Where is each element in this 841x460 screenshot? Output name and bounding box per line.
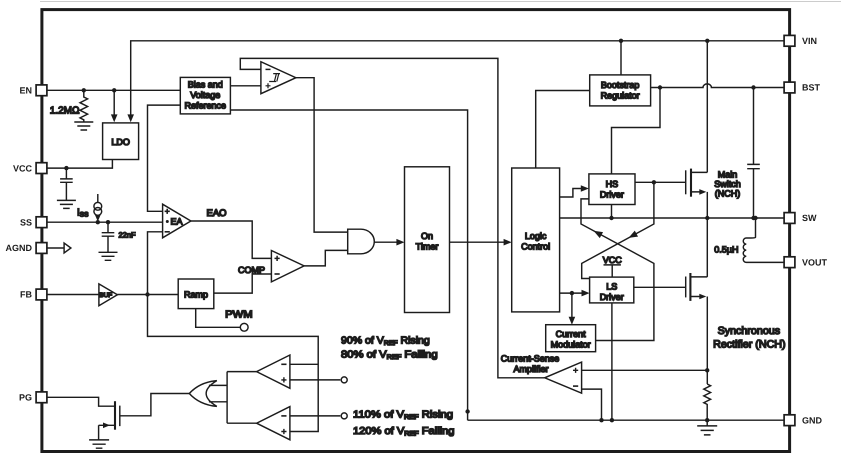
pin VOUT: [784, 257, 795, 268]
cross-couple line from current modulator to HS driver: [581, 199, 654, 341]
AND gate U6: [348, 229, 375, 254]
svg-text:Logic: Logic: [525, 231, 547, 241]
wire bottom PG comparator output: [227, 422, 257, 424]
wire GND rail: [468, 419, 784, 421]
pin PG: [36, 392, 47, 403]
svg-text:Main: Main: [718, 170, 738, 180]
pin VIN: [784, 35, 795, 46]
wire SW net: [560, 217, 784, 219]
node BST cap junction: [751, 85, 755, 89]
pin FB: [36, 289, 47, 300]
svg-text:Amplifier: Amplifier: [513, 364, 548, 374]
svg-text:Driver: Driver: [600, 189, 624, 199]
arrow into LDO from VIN: [127, 114, 134, 122]
node bootstrap cap at SW: [751, 216, 755, 220]
arrow into LDO from EN: [111, 114, 118, 122]
wire Q3 gate to OR gate: [120, 394, 190, 416]
wire AND out to On Timer: [374, 241, 398, 243]
svg-text:SS: SS: [20, 217, 32, 227]
wire Bias to EA plus: [148, 105, 181, 211]
svg-text:EA: EA: [171, 217, 183, 227]
pin SS: [36, 217, 47, 228]
svg-text:22nF: 22nF: [119, 231, 137, 240]
svg-text:120% of VREF Falling: 120% of VREF Falling: [353, 426, 455, 438]
svg-text:PWM: PWM: [225, 310, 253, 321]
wire BUF out to Ramp: [117, 294, 178, 296]
node terminal circle high: [341, 377, 347, 383]
node sense resistor at GND rail: [705, 418, 709, 422]
HS Driver box: [589, 174, 635, 205]
ground at GND rail: [697, 420, 717, 435]
node PWM terminal: [240, 323, 248, 331]
op-amp U5 PWM comparator: [271, 251, 304, 282]
wire rectifier source down: [706, 297, 708, 385]
node VCC cap junction: [64, 166, 68, 170]
ground below R1: [74, 122, 93, 130]
node SS junction 1: [96, 220, 100, 224]
svg-text:Bias and: Bias and: [188, 80, 223, 90]
wire LDO to VCC: [47, 160, 112, 169]
node FB junction: [145, 292, 149, 296]
transistor Q2 synchronous rectifier: [685, 277, 687, 298]
svg-text:Timer: Timer: [416, 242, 439, 252]
op-amp U3 hysteresis comparator: [261, 62, 296, 94]
capacitor bootstrap: [747, 88, 760, 219]
svg-text:Voltage: Voltage: [190, 90, 220, 100]
Current Modulator box: [546, 325, 596, 352]
OR gate U8 mirrored: [189, 381, 217, 407]
wire HS bottom to SW: [611, 205, 613, 219]
wire main switch source to SW: [706, 192, 708, 218]
svg-text:Synchronous: Synchronous: [718, 325, 781, 337]
svg-text:Control: Control: [521, 242, 550, 252]
Bias and Voltage Reference box: [180, 77, 230, 114]
svg-text:Ramp: Ramp: [184, 290, 208, 300]
wire cs-amp output to comparator minus: [240, 58, 544, 377]
node sense resistor top: [705, 368, 709, 372]
wire AGND stub: [47, 247, 64, 249]
wire On Timer to Logic Control: [450, 241, 506, 243]
wire OR inputs bus: [209, 384, 227, 386]
node on bias column near GND rail: [465, 409, 469, 413]
svg-text:FB: FB: [20, 290, 32, 300]
Logic Control box: [512, 168, 560, 312]
LS Driver box: [590, 277, 634, 303]
svg-text:(NCH): (NCH): [715, 189, 741, 199]
arrow on cross line to HS: [592, 228, 603, 238]
transistor Q1 main switch: [685, 170, 687, 194]
pin EN: [36, 85, 47, 96]
wire cs-amp minus input to GND rail: [582, 389, 602, 420]
wire EN net: [47, 89, 180, 91]
svg-text:BUF: BUF: [100, 292, 113, 299]
node SW inductor junction: [753, 216, 757, 220]
svg-text:VOUT: VOUT: [802, 257, 828, 267]
svg-text:PG: PG: [19, 393, 32, 403]
Ramp generator box: [178, 279, 214, 309]
wire EAO: [191, 221, 272, 258]
svg-text:On: On: [421, 231, 433, 241]
hysteresis glyph: [269, 74, 280, 82]
wire top PG comparator output: [227, 371, 257, 373]
svg-text:EN: EN: [19, 86, 32, 96]
PG open drain transistor Q3: [47, 397, 115, 406]
wire Bias to comparator plus: [230, 85, 261, 87]
wire BST to HS driver: [612, 88, 661, 174]
wire to current modulator: [571, 293, 573, 318]
svg-text:EAO: EAO: [207, 208, 227, 219]
svg-text:Regulator: Regulator: [601, 90, 640, 100]
resistor sense: [704, 384, 711, 420]
svg-text:LS: LS: [606, 281, 617, 291]
pin AGND: [36, 243, 47, 254]
svg-text:AGND: AGND: [6, 243, 33, 253]
pin SW: [784, 213, 795, 224]
op-amp U9 PG comparator high: [257, 355, 290, 388]
svg-text:SW: SW: [802, 213, 817, 223]
wire COMP out to AND: [304, 250, 348, 266]
arrow AGND open: [64, 243, 71, 253]
wire LS driver output to rectifier gate: [634, 286, 686, 288]
wire comp high plus to terminal: [290, 379, 340, 381]
svg-text:Bootstrap: Bootstrap: [601, 80, 640, 90]
wire VIN to Bootstrap: [620, 41, 622, 75]
svg-text:Modulator: Modulator: [551, 339, 591, 349]
op-amp U10 PG comparator low: [257, 407, 290, 440]
ground below C1: [57, 200, 76, 208]
svg-text:VCC: VCC: [603, 255, 623, 265]
wire comparator output to AND gate: [296, 78, 348, 232]
wire VCC bar to LS driver: [611, 265, 613, 277]
page artifact top line: [40, 1, 841, 3]
op-amp U7 current sense amplifier: [545, 362, 582, 393]
pin GND: [784, 415, 795, 426]
node EN-resistor junction: [82, 88, 86, 92]
wire Bootstrap to Logic Control: [536, 91, 590, 169]
svg-text:Switch: Switch: [714, 179, 741, 189]
wire Ramp out to COMP minus: [214, 274, 272, 293]
wire LS driver bottom to GND rail: [611, 303, 613, 420]
wire Logic to LS driver: [560, 292, 583, 294]
svg-text:Reference: Reference: [185, 101, 227, 111]
LDO U2 box: [103, 123, 139, 160]
cross-couple line from HS gate to LS driver: [582, 182, 654, 278]
svg-text:VIN: VIN: [802, 36, 817, 46]
node EN-LDO junction: [112, 88, 116, 92]
pin VCC: [36, 163, 47, 174]
svg-text:GND: GND: [802, 415, 823, 425]
node BST to HS driver junction: [658, 85, 662, 89]
wire Bias right output to current modulator column: [230, 110, 467, 420]
op-amp U4 error amplifier EA: [163, 204, 191, 238]
svg-text:110% of VREF Rising: 110% of VREF Rising: [353, 409, 453, 421]
wire BST net: [651, 84, 784, 88]
node SS junction 2: [106, 220, 110, 224]
svg-text:0.5µH: 0.5µH: [714, 244, 738, 254]
wire EN to LDO: [113, 90, 115, 115]
svg-text:Current: Current: [556, 329, 587, 339]
svg-text:LDO: LDO: [111, 137, 130, 147]
svg-text:HS: HS: [606, 179, 619, 189]
current source Iss: [97, 194, 99, 202]
arrow on cross line to LS: [627, 231, 638, 241]
capacitor C2 22nF: [102, 222, 115, 252]
svg-text:Rectifier (NCH): Rectifier (NCH): [713, 339, 786, 351]
node terminal circle low: [341, 413, 347, 419]
wire main switch drain to VIN: [706, 41, 708, 173]
ground below Q3: [89, 440, 109, 448]
wire cs-amp plus input to sense resistor: [582, 369, 708, 371]
wire comp low minus to terminal: [290, 415, 340, 417]
svg-text:COMP: COMP: [238, 265, 265, 275]
svg-text:Driver: Driver: [600, 292, 624, 302]
svg-text:Current-Sense: Current-Sense: [501, 353, 560, 363]
capacitor C1 at VCC: [60, 168, 73, 200]
pin BST: [784, 82, 795, 93]
wire HS driver output to main switch gate: [635, 181, 686, 183]
ground below C2: [99, 252, 118, 260]
wire Logic to HS driver: [560, 189, 583, 198]
wire FB net: [47, 294, 99, 296]
wire comp high minus to FB bus: [290, 363, 318, 365]
resistor R1 1.2Mohm: [80, 90, 88, 122]
wire FB to EA minus: [148, 232, 163, 295]
Bootstrap Regulator box: [590, 75, 651, 106]
On Timer box: [405, 167, 450, 313]
wire VIN rail: [131, 41, 790, 115]
wire Ramp to PWM test point: [196, 309, 241, 328]
buffer BUF: [99, 284, 118, 306]
wire rectifier drain to SW: [706, 218, 708, 277]
wire SS net: [47, 221, 163, 223]
node LS input junction: [570, 291, 574, 295]
svg-text:BST: BST: [802, 83, 821, 93]
svg-text:VCC: VCC: [13, 163, 33, 173]
wire FB sense to PG comparators: [148, 295, 319, 432]
node HS gate junction: [652, 180, 656, 184]
inductor L1 0.5uH: [743, 218, 784, 262]
svg-text:1.2MΩ: 1.2MΩ: [50, 106, 80, 117]
